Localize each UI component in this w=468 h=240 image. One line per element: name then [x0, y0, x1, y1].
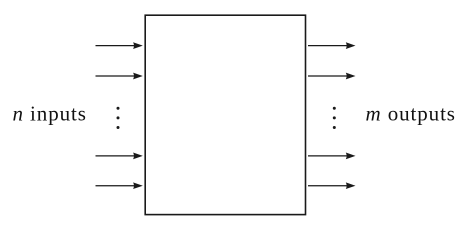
input arrow 4 (wire) [96, 182, 143, 189]
combinational circuit block (rectangle) [145, 15, 305, 214]
output arrow 4 (wire) [308, 182, 356, 189]
svg-text:m outputs: m outputs [366, 101, 456, 125]
output arrow 1 (wire) [308, 42, 356, 49]
right vertical ellipsis (more outputs) [333, 107, 336, 129]
output arrow 3 (wire) [308, 153, 356, 160]
input arrow 1 (wire) [96, 42, 143, 49]
input arrow 2 (wire) [96, 73, 143, 80]
svg-text:n inputs: n inputs [13, 101, 87, 125]
input arrow 3 (wire) [96, 153, 143, 160]
output arrow 2 (wire) [308, 73, 356, 80]
left vertical ellipsis (more inputs) [117, 107, 120, 129]
